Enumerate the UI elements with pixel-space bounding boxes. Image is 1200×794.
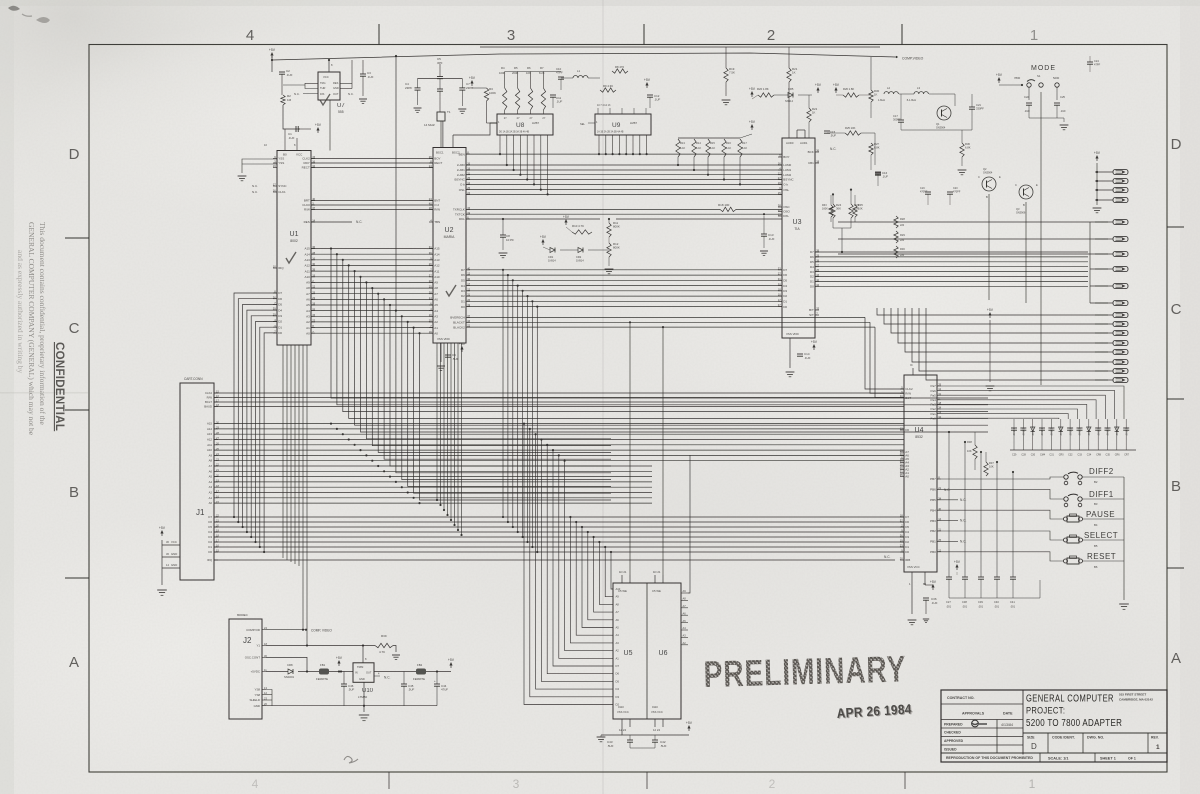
svg-text:36: 36 [429,251,432,255]
svg-text:D4: D4 [278,308,282,312]
svg-text:CONTRACT NO.: CONTRACT NO. [947,696,975,700]
svg-text:+5V: +5V [563,215,570,219]
svg-text:PB4: PB4 [930,508,936,512]
svg-text:1M: 1M [287,98,292,102]
svg-text:R14: R14 [696,141,701,145]
svg-text:1.8uH: 1.8uH [878,98,885,102]
svg-text:C30: C30 [1031,454,1036,457]
svg-text:34: 34 [816,283,819,287]
svg-text:B2: B2 [1094,480,1098,484]
svg-text:A11: A11 [305,269,310,273]
svg-text:+5V: +5V [811,340,818,344]
svg-text:A9: A9 [616,595,620,599]
svg-text:Pa6: Pa6 [930,389,936,393]
svg-text:220: 220 [900,224,905,227]
svg-text:26: 26 [900,463,903,467]
svg-text:VSS VCC: VSS VCC [651,710,663,714]
svg-text:A1: A1 [209,496,213,500]
svg-text:A8: A8 [209,459,213,463]
svg-text:IN: IN [355,671,358,675]
svg-text:39: 39 [816,258,819,262]
svg-text:D3: D3 [278,314,282,318]
svg-text:SHEET 1: SHEET 1 [1100,757,1116,761]
svg-text:.001UF: .001UF [1059,427,1063,436]
svg-text:.5UF: .5UF [408,688,414,692]
svg-text:11: 11 [778,282,781,286]
svg-text:D5: D5 [616,679,620,683]
svg-text:515 FIRST STREET: 515 FIRST STREET [1119,693,1146,697]
svg-text:40: 40 [429,202,432,206]
svg-text:A: A [1171,650,1181,667]
svg-text:N.C.: N.C. [294,92,300,96]
svg-text:C25: C25 [1060,95,1065,99]
svg-text:B: B [986,195,988,199]
svg-text:LTM80: LTM80 [358,695,367,699]
svg-text:L2: L2 [887,86,891,90]
svg-text:.1UF: .1UF [288,136,295,140]
svg-text:40: 40 [900,452,903,456]
svg-text:PB5: PB5 [930,498,936,502]
svg-text:2: 2 [767,27,775,44]
svg-text:PB1: PB1 [930,540,936,544]
svg-text:A4: A4 [306,309,310,313]
svg-text:C27: C27 [946,600,951,604]
svg-text:+5V: +5V [540,235,547,239]
svg-text:47UF: 47UF [441,688,448,692]
svg-text:CR8: CR8 [287,663,293,667]
svg-text:37: 37 [778,303,781,307]
svg-text:36: 36 [467,277,470,281]
svg-text:IRB: IRB [905,558,910,562]
svg-text:Q3: Q3 [1016,207,1020,211]
svg-text:27: 27 [778,176,781,180]
svg-text:100K: 100K [489,91,496,95]
svg-text:A3: A3 [616,641,620,645]
svg-text:OF 1: OF 1 [1128,757,1136,761]
svg-text:16: 16 [429,330,432,334]
svg-text:DXL: DXL [783,214,789,218]
svg-text:GND: GND [171,552,177,556]
svg-text:300PF: 300PF [893,117,901,121]
svg-text:APPROVED: APPROVED [944,739,964,743]
svg-text:10: 10 [816,278,819,282]
svg-text:25: 25 [816,268,819,272]
svg-text:R9 4.3K: R9 4.3K [603,84,613,88]
svg-text:25: 25 [429,285,432,289]
svg-text:1N914: 1N914 [548,258,556,262]
svg-text:C39: C39 [978,600,983,604]
svg-text:N.C.: N.C. [348,92,354,96]
svg-text:.1UF: .1UF [556,100,562,104]
svg-text:8.8K: 8.8K [874,146,880,150]
svg-text:A12: A12 [434,264,440,268]
svg-text:22: 22 [778,208,781,212]
svg-text:Pa2: Pa2 [930,407,936,411]
svg-text:10: 10 [778,293,781,297]
svg-text:.1UF: .1UF [768,237,775,241]
svg-text:19: 19 [312,273,315,277]
svg-text:R25 10K: R25 10K [845,126,856,130]
svg-text:4: 4 [246,27,254,44]
svg-text:A7: A7 [306,292,310,296]
svg-text:D1: D1 [208,545,212,549]
svg-text:38: 38 [429,290,432,294]
svg-text:D3: D3 [783,289,787,293]
svg-text:REPRODUCTION OF THIS DOCUMENT: REPRODUCTION OF THIS DOCUMENT PROHIBITED [946,756,1033,760]
svg-text:YSS: YSS [278,157,284,161]
svg-text:18: 18 [816,160,819,164]
svg-text:A8: A8 [306,286,310,290]
svg-text:D5: D5 [461,279,465,283]
svg-text:22: 22 [778,171,781,175]
svg-text:R36: R36 [965,142,970,146]
svg-text:37: 37 [467,314,470,318]
svg-text:A1: A1 [306,326,310,330]
svg-text:SCALE: 1/1: SCALE: 1/1 [1048,757,1068,761]
svg-text:+5V: +5V [469,76,476,80]
svg-text:VCC: VCC [171,540,177,544]
svg-text:C17: C17 [893,114,898,118]
svg-text:D7: D7 [616,664,620,668]
svg-text:.001UF: .001UF [1022,427,1026,436]
svg-text:36: 36 [312,245,315,249]
svg-text:DWG. NO.: DWG. NO. [1087,736,1104,740]
svg-text:TRIM: TRIM [357,665,363,669]
svg-text:A13: A13 [304,258,310,262]
svg-text:BAUD: BAUD [204,405,212,409]
svg-text:D4: D4 [810,265,814,269]
svg-text:OSC: OSC [783,205,790,209]
svg-text:TIA: TIA [794,227,800,231]
svg-text:R13: R13 [680,141,685,145]
svg-text:.1UF: .1UF [286,73,293,77]
svg-text:A2: A2 [209,491,213,495]
svg-text:CR6: CR6 [1115,454,1120,457]
svg-text:B: B [1171,478,1181,495]
svg-text:U5: U5 [624,650,633,657]
svg-text:BNT: BNT [434,199,440,203]
svg-text:A8: A8 [616,602,620,606]
svg-text:A7: A7 [616,610,620,614]
svg-text:J1: J1 [196,508,205,517]
svg-text:D6: D6 [810,255,814,259]
svg-text:RESET: RESET [1087,552,1116,561]
svg-text:14 MHZ: 14 MHZ [424,123,435,127]
svg-text:A5: A5 [306,303,310,307]
svg-text:C38: C38 [962,600,967,604]
svg-text:160K: 160K [822,207,828,210]
svg-text:DIFF2: DIFF2 [1089,467,1114,476]
svg-text:D1: D1 [783,300,787,304]
svg-text:.001UF: .001UF [1012,427,1016,436]
svg-text:A12: A12 [304,264,310,268]
svg-text:D6: D6 [905,520,909,524]
svg-text:N.C.: N.C. [356,220,362,224]
svg-text:RECT: RECT [302,166,310,170]
svg-text:A7: A7 [434,292,438,296]
svg-text:1: 1 [1030,27,1038,44]
svg-text:33: 33 [778,266,781,270]
svg-text:VCC: VCC [323,75,329,79]
svg-text:IRQ: IRQ [207,558,213,562]
svg-text:C31: C31 [1049,454,1054,457]
svg-text:B3: B3 [1094,502,1098,506]
svg-text:29: 29 [273,312,276,316]
svg-text:S1: S1 [1037,74,1041,78]
svg-text:D2: D2 [783,294,787,298]
svg-text:R30: R30 [900,247,905,251]
svg-text:A4: A4 [683,626,687,630]
svg-text:A6: A6 [683,611,687,615]
svg-text:20: 20 [429,279,432,283]
svg-text:.1UF: .1UF [1060,109,1066,113]
svg-text:C40: C40 [994,600,999,604]
svg-text:D6: D6 [616,672,620,676]
svg-text:A8: A8 [683,597,687,601]
svg-text:2: 2 [769,777,776,791]
svg-text:23PF: 23PF [405,86,412,90]
svg-text:A0: A0 [209,501,213,505]
svg-text:BCT: BCT [905,396,911,400]
svg-text:24: 24 [429,164,432,168]
svg-text:29: 29 [900,449,903,453]
svg-text:A13: A13 [207,432,212,436]
svg-text:+5V: +5V [749,120,756,124]
svg-text:19: 19 [273,164,276,168]
svg-text:1A 1B 2A 2B 3A 3B 4A 4B: 1A 1B 2A 2B 3A 3B 4A 4B [597,131,624,134]
svg-text:.5-1.8uH: .5-1.8uH [906,98,916,102]
svg-text:BOY: BOY [783,155,789,159]
svg-text:BSYNC: BSYNC [454,178,465,182]
svg-text:N.C.: N.C. [830,147,836,151]
svg-text:1D 21: 1D 21 [653,570,661,574]
svg-text:R7: R7 [540,66,544,70]
svg-text:GENERAL COMPUTER: GENERAL COMPUTER [1026,692,1114,703]
svg-text:5.1K: 5.1K [680,147,685,150]
svg-text:CR8: CR8 [1096,454,1101,457]
svg-text:.1UF: .1UF [1024,109,1030,113]
svg-text:IC: IC [910,363,913,367]
svg-text:A7: A7 [209,464,213,468]
svg-text:555: 555 [338,110,344,114]
svg-text:A4: A4 [209,480,213,484]
svg-text:D: D [1031,742,1037,751]
svg-text:26: 26 [467,298,470,302]
svg-text:A5: A5 [209,475,213,479]
svg-text:A4: A4 [434,309,438,313]
svg-text:.001UF: .001UF [1040,427,1044,436]
svg-text:VSS VDD: VSS VDD [437,337,450,341]
svg-text:15: 15 [467,206,470,210]
svg-text:800K: 800K [613,246,620,250]
svg-text:D4: D4 [616,687,620,691]
svg-text:.001UF: .001UF [1115,427,1119,436]
svg-text:A: A [69,654,79,671]
svg-text:20: 20 [429,319,432,323]
svg-text:A1: A1 [434,326,438,330]
svg-text:COMP, VIDEO: COMP, VIDEO [311,629,332,633]
svg-text:D6: D6 [278,297,282,301]
svg-text:E: E [999,175,1001,179]
svg-text:OUT: OUT [366,671,372,675]
svg-text:27: 27 [816,263,819,267]
svg-text:N.C.: N.C. [384,676,390,680]
svg-text:U9: U9 [612,122,621,129]
svg-text:A3: A3 [306,315,310,319]
svg-text:IRQ: IRQ [278,266,284,270]
svg-text:SEL: SEL [580,122,585,126]
svg-text:CODE IDENT.: CODE IDENT. [1052,736,1075,740]
svg-text:+5VDC: +5VDC [251,670,260,674]
svg-text:LUM1: LUM1 [457,168,465,172]
svg-text:330PF: 330PF [976,107,984,111]
svg-text:25: 25 [467,176,470,180]
svg-text:5.1K: 5.1K [742,147,747,150]
svg-text:BSC2: BSC2 [452,151,460,155]
svg-text:C29: C29 [1012,454,1017,457]
svg-text:5200 TO 7800 ADAPTER: 5200 TO 7800 ADAPTER [1026,717,1122,728]
svg-text:39: 39 [816,249,819,253]
svg-text:VCC: VCC [296,153,303,157]
svg-text:DATE: DATE [1003,712,1013,716]
svg-text:Q1: Q1 [936,122,940,126]
svg-text:23: 23 [312,296,315,300]
svg-text:39: 39 [273,307,276,311]
svg-text:SHIELD: SHIELD [250,698,260,702]
svg-text:BSC1: BSC1 [436,151,444,155]
svg-text:17: 17 [273,183,276,187]
svg-text:OSL: OSL [783,188,789,192]
svg-text:A2: A2 [434,320,438,324]
svg-text:15: 15 [778,191,781,195]
svg-text:A12: A12 [207,438,212,442]
svg-text:R28: R28 [900,217,905,221]
svg-text:LM87: LM87 [532,121,539,125]
svg-text:OUT: OUT [333,92,339,96]
svg-text:L1: L1 [577,69,581,73]
svg-text:U3: U3 [793,219,802,226]
svg-text:D1: D1 [278,325,282,329]
svg-text:16: 16 [273,189,276,193]
svg-text:SN3904: SN3904 [936,125,946,129]
svg-text:8532: 8532 [915,435,923,439]
svg-text:U4: U4 [915,427,924,434]
svg-text:+5V: +5V [1094,151,1101,155]
svg-text:U1: U1 [290,231,299,238]
svg-text:C33: C33 [1078,454,1083,457]
svg-text:Pa0: Pa0 [930,416,936,420]
svg-text:CART.CONN: CART.CONN [184,377,203,381]
svg-text:Pa7: Pa7 [930,384,936,388]
svg-text:R10 4.7K: R10 4.7K [572,224,584,228]
svg-text:16: 16 [312,160,315,164]
svg-text:16: 16 [778,162,781,166]
svg-text:R26 1.8K: R26 1.8K [843,87,854,91]
svg-text:16: 16 [467,319,470,323]
svg-text:C: C [1015,183,1017,187]
svg-text:A15: A15 [434,247,440,251]
svg-text:R16: R16 [726,141,731,145]
svg-text:C: C [978,175,980,179]
svg-text:6.8K: 6.8K [965,146,971,150]
svg-text:R20 1.8K: R20 1.8K [757,87,769,91]
svg-text:35: 35 [900,473,903,477]
svg-text:37: 37 [900,519,903,523]
svg-text:12: 12 [900,427,903,431]
svg-text:R37: R37 [989,461,994,465]
svg-text:4: 4 [252,777,259,791]
svg-text:7800: 7800 [1014,76,1021,80]
svg-text:2Y: 2Y [542,117,545,120]
svg-text:C5 WE: C5 WE [652,589,661,593]
svg-text:A11: A11 [207,443,212,447]
svg-text:RDY: RDY [303,161,309,165]
svg-text:47PF: 47PF [556,71,563,75]
svg-text:VSS VCC: VSS VCC [907,565,920,569]
svg-text:BRT: BRT [304,199,310,203]
svg-text:36: 36 [900,534,903,538]
svg-text:R39: R39 [381,634,387,638]
svg-text:CR1: CR1 [548,255,554,259]
svg-text:0110: 0110 [618,705,624,709]
svg-text:TXTCK: TXTCK [455,212,465,216]
svg-text:SELECT: SELECT [1084,531,1118,540]
svg-text:TXRCLK: TXRCLK [453,208,465,212]
svg-text:34: 34 [312,164,315,168]
svg-text:RES: RES [333,81,339,85]
svg-text:15: 15 [778,213,781,217]
svg-text:D3: D3 [810,270,814,274]
svg-text:.001UF: .001UF [1106,427,1110,436]
svg-text:19: 19 [467,303,470,307]
svg-text:A6: A6 [616,618,620,622]
svg-text:12: 12 [467,181,470,185]
svg-text:.5UF: .5UF [452,357,459,361]
svg-text:+5V: +5V [996,73,1003,77]
svg-text:N.C.: N.C. [252,190,258,194]
svg-text:C34: C34 [1087,454,1092,457]
svg-text:18: 18 [778,287,781,291]
svg-text:ISSUED: ISSUED [944,748,957,752]
svg-text:PB6: PB6 [930,488,936,492]
svg-text:Pa1: Pa1 [930,412,936,416]
svg-text:B: B [1023,203,1025,207]
svg-text:39: 39 [312,268,315,272]
svg-text:CR2: CR2 [576,255,582,259]
svg-text:COMP.VID: COMP.VID [246,628,260,632]
svg-text:N.C.: N.C. [960,539,966,543]
svg-text:D2: D2 [810,275,814,279]
svg-text:B: B [69,484,79,501]
svg-text:GND: GND [359,677,365,681]
svg-text:14: 14 [429,296,432,300]
svg-text:.001UF: .001UF [1096,427,1100,436]
svg-text:18: 18 [900,514,903,518]
svg-text:A2: A2 [306,320,310,324]
svg-text:BLACKT: BLACKT [453,321,465,325]
svg-text:.5UF: .5UF [830,134,836,138]
svg-text:470PF: 470PF [953,190,961,193]
svg-text:D0: D0 [810,285,814,289]
svg-text:2Y: 2Y [530,117,533,120]
svg-text:CM4: CM4 [1040,454,1046,457]
svg-text:A9: A9 [434,281,438,285]
svg-text:D0: D0 [278,331,282,335]
svg-text:FB1: FB1 [320,663,326,667]
svg-text:CONFIDENTIAL: CONFIDENTIAL [53,342,65,431]
svg-text:.001: .001 [1010,605,1016,609]
svg-text:+5V: +5V [315,123,322,127]
